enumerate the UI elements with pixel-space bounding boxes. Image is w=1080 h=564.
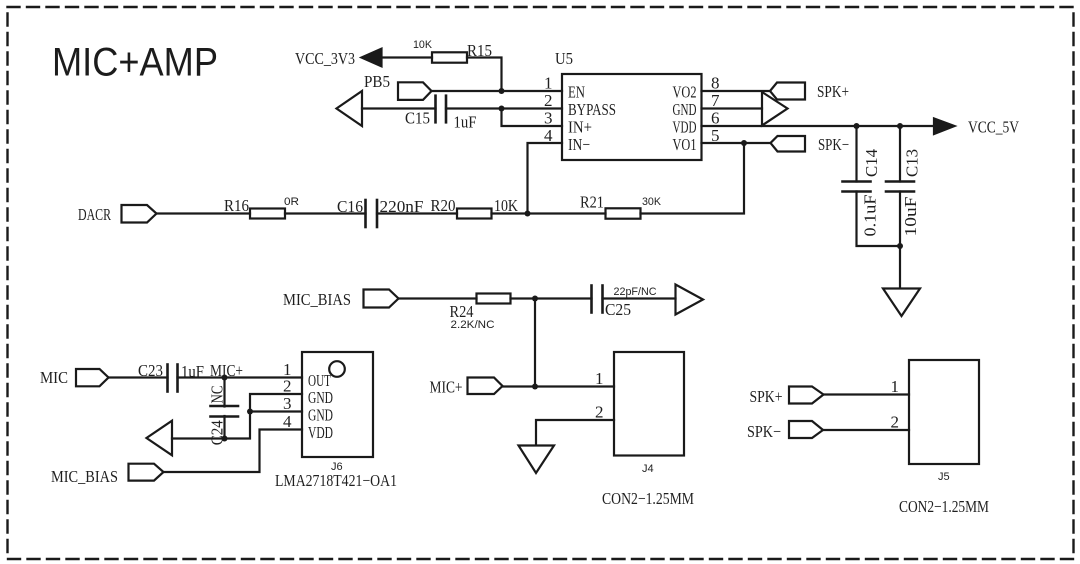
svg-text:2: 2 [595, 403, 604, 422]
svg-text:SPK+: SPK+ [750, 387, 783, 406]
svg-text:EN: EN [568, 83, 585, 102]
pin number 1 J4 [595, 369, 604, 388]
svg-text:MIC+: MIC+ [430, 378, 463, 397]
label 0.1uF rotated [861, 195, 880, 237]
svg-text:VDD: VDD [673, 118, 697, 137]
label 2.2K/NC [451, 319, 495, 331]
svg-text:C24: C24 [208, 420, 227, 445]
capacitor C13 [886, 182, 914, 192]
svg-text:GND: GND [673, 100, 697, 119]
svg-text:1: 1 [595, 369, 604, 388]
label MIC_BIAS mid [283, 290, 351, 309]
svg-text:220nF: 220nF [380, 197, 424, 216]
label 1uF of C15 [454, 113, 477, 132]
svg-text:MIC_BIAS: MIC_BIAS [283, 290, 351, 309]
junction dot C14 top [854, 123, 860, 129]
pin number 3 J6 [283, 394, 292, 413]
svg-text:IN−: IN− [568, 135, 590, 154]
junction dot VO1 node [741, 140, 747, 146]
svg-text:8: 8 [711, 74, 720, 93]
svg-text:10uF: 10uF [901, 197, 920, 237]
pin label OUT J6 [308, 371, 331, 390]
svg-text:MIC: MIC [40, 368, 68, 387]
net port SPK- flag top [771, 136, 806, 152]
net port PB5 flag [398, 82, 432, 100]
wire PB5 to EN [432, 90, 563, 92]
junction dot MIC+ node [222, 375, 228, 381]
svg-text:C13: C13 [903, 149, 922, 177]
svg-text:VCC_3V3: VCC_3V3 [295, 49, 355, 68]
junction dot pin2-3 [247, 409, 253, 415]
net port DACR flag [122, 205, 157, 223]
title MIC+AMP [52, 41, 218, 85]
wire node to R21 [528, 212, 606, 214]
label 10K of R15 [413, 39, 433, 51]
pin label BYPASS [568, 100, 616, 119]
ground symbol below J4 [519, 446, 555, 474]
svg-text:30K: 30K [642, 196, 662, 208]
ground symbol right of pin7 [762, 92, 788, 126]
svg-text:C23: C23 [138, 361, 163, 380]
svg-text:VCC_5V: VCC_5V [968, 118, 1020, 137]
pin label GND U5 [673, 100, 697, 119]
svg-text:C16: C16 [337, 197, 363, 216]
junction dot R24 node [532, 296, 538, 302]
svg-text:10K: 10K [413, 39, 433, 51]
svg-text:1uF: 1uF [181, 362, 204, 381]
wire node to C25 [535, 297, 592, 299]
ground symbol at C15 [337, 91, 363, 126]
ground symbol right of C25 [676, 285, 704, 315]
resistor R15 [432, 52, 467, 62]
wire pin5 VO1 to SPK- [702, 142, 771, 144]
wire node down to MIC+ [534, 299, 536, 387]
wire pin4 IN- down to R20 node [528, 143, 563, 214]
pin number 1 J5 [891, 377, 900, 396]
label MIC [40, 368, 68, 387]
svg-text:VO1: VO1 [673, 135, 697, 154]
ground symbol below C13 [883, 289, 920, 317]
svg-text:2: 2 [544, 91, 553, 110]
wire C15 to BYPASS node [446, 107, 502, 109]
svg-text:PB5: PB5 [364, 72, 390, 91]
pin1 mark circle J6 [329, 361, 345, 377]
connector J4 body [614, 352, 684, 456]
svg-text:1uF: 1uF [454, 113, 477, 132]
label U5 [555, 49, 573, 68]
label 220nF [380, 197, 424, 216]
svg-text:IN+: IN+ [568, 118, 592, 137]
pin number 5 U5 [711, 126, 720, 145]
pin number 6 U5 [711, 109, 720, 128]
label CON2-1.25MM J4 [602, 489, 694, 508]
svg-text:6: 6 [711, 109, 720, 128]
wire SPK- to J5 pin2 [823, 429, 909, 431]
label 1uF of C23 [181, 362, 204, 381]
svg-text:4: 4 [544, 126, 553, 145]
svg-text:1: 1 [544, 74, 553, 93]
svg-text:GND: GND [308, 388, 333, 407]
pin number 2 J6 [283, 377, 292, 396]
capacitor C16 [366, 200, 378, 227]
junction dot C13 bottom [897, 243, 903, 249]
svg-text:SPK−: SPK− [747, 422, 781, 441]
pin label GND3 J6 [308, 406, 333, 425]
wire R20 to node [492, 212, 528, 214]
wire VCC_3V3 to R15 [381, 56, 432, 58]
net port SPK+ flag top [770, 83, 805, 100]
pin label GND2 J6 [308, 388, 333, 407]
svg-text:MIC+AMP: MIC+AMP [52, 41, 218, 85]
svg-text:3: 3 [283, 394, 292, 413]
wire R21 up to VO1 [641, 143, 745, 214]
wire node to pin3 IN+ [502, 109, 563, 127]
label C24 rotated [208, 420, 227, 445]
pin number 1 U5 [544, 74, 553, 93]
resistor R21 [606, 208, 641, 218]
wire J6 pin4 to MIC_BIAS [164, 430, 303, 473]
label R21 [580, 193, 604, 212]
svg-text:VDD: VDD [308, 423, 333, 442]
svg-text:C14: C14 [862, 149, 881, 177]
label 10K of R20 [494, 196, 519, 215]
label C14 rotated [862, 149, 881, 177]
pin label IN+ [568, 118, 592, 137]
label 30K of R21 [642, 196, 662, 208]
label SPK+ top [817, 82, 849, 101]
wire DACR to R16 [157, 212, 251, 214]
wire C14 top [855, 126, 857, 182]
junction dot C24 bottom [222, 436, 228, 442]
pin label VDD U5 [673, 118, 697, 137]
svg-text:4: 4 [283, 412, 292, 431]
svg-text:DACR: DACR [78, 205, 111, 224]
svg-text:R21: R21 [580, 193, 604, 212]
label C13 rotated [903, 149, 922, 177]
label VCC_3V3 [295, 49, 355, 68]
svg-text:GND: GND [308, 406, 333, 425]
wire pin7 GND to ground [702, 107, 763, 109]
wire node to pin2 BYPASS [502, 107, 563, 109]
label R16 [224, 196, 249, 215]
label MIC+ node [210, 361, 243, 380]
junction dot EN node [499, 88, 505, 94]
net port MIC flag [76, 369, 109, 386]
label SPK- at J5 [747, 422, 781, 441]
svg-text:MIC+: MIC+ [210, 361, 243, 380]
label 10uF rotated [901, 197, 920, 237]
label 0R of R16 [284, 196, 299, 208]
pin number 1 J6 [283, 360, 292, 379]
ground symbol left of C24 [147, 421, 173, 456]
svg-text:5: 5 [711, 126, 720, 145]
connector J5 body [909, 360, 979, 464]
wire MIC to C23 [109, 376, 168, 378]
label PB5 [364, 72, 390, 91]
junction dot J4 pin1 [532, 384, 538, 390]
label J5 [938, 471, 950, 483]
svg-text:CON2−1.25MM: CON2−1.25MM [602, 489, 694, 508]
wire J4 pin2 to ground [536, 420, 614, 445]
wire pin8 VO2 to SPK+ [702, 90, 771, 92]
svg-text:R20: R20 [431, 196, 456, 215]
label C16 [337, 197, 363, 216]
svg-text:J4: J4 [642, 463, 654, 475]
label C23 [138, 361, 163, 380]
wire MIC_BIAS to R24 [399, 297, 477, 299]
wire pin6 VDD to VCC_5V [702, 125, 935, 127]
junction dot IN- node [525, 211, 531, 217]
wire J6 pin3 [250, 410, 302, 412]
wire ground to C15 [362, 107, 436, 109]
op-amp U5 body [562, 74, 702, 160]
wire MIC+ to J4 pin1 [503, 385, 615, 387]
pin number 2 J4 [595, 403, 604, 422]
svg-text:2: 2 [891, 413, 900, 432]
svg-text:C15: C15 [405, 109, 430, 128]
pin number 2 J5 [891, 413, 900, 432]
pin label IN- [568, 135, 590, 154]
svg-text:R15: R15 [467, 41, 492, 60]
label MIC_BIAS bottom [51, 467, 118, 486]
capacitor C15 [436, 96, 447, 123]
svg-text:10K: 10K [494, 196, 519, 215]
pin number 2 U5 [544, 91, 553, 110]
label R24 [450, 302, 474, 321]
label SPK- top [818, 135, 849, 154]
junction dot BYPASS node [499, 106, 505, 112]
resistor R24 [477, 294, 511, 304]
wire gnd run J6 [172, 412, 250, 439]
svg-text:MIC_BIAS: MIC_BIAS [51, 467, 118, 486]
wire SPK+ to J5 pin1 [824, 393, 910, 395]
svg-text:SPK−: SPK− [818, 135, 849, 154]
wire MIC+ node down to C24 [223, 378, 225, 407]
junction dot C13 top [897, 123, 903, 129]
pin label VO1 [673, 135, 697, 154]
wire C25 to ground [603, 297, 676, 299]
wire C24 bottom [223, 416, 225, 439]
svg-text:SPK+: SPK+ [817, 82, 849, 101]
svg-text:LMA2718T421−OA1: LMA2718T421−OA1 [275, 471, 397, 490]
label DACR [78, 205, 111, 224]
label SPK+ at J5 [750, 387, 783, 406]
pin number 8 U5 [711, 74, 720, 93]
wire C16 to R20 [377, 212, 457, 214]
label NC rotated [208, 386, 227, 404]
svg-text:BYPASS: BYPASS [568, 100, 616, 119]
wire C23 to J6 pin1 [178, 376, 303, 378]
net port MIC+ flag at J4 [468, 378, 503, 395]
svg-text:C25: C25 [605, 300, 631, 319]
pin number 7 U5 [711, 91, 720, 110]
label C15 [405, 109, 430, 128]
capacitor C23 [168, 365, 178, 392]
svg-text:J5: J5 [938, 471, 950, 483]
label J4 [642, 463, 654, 475]
net port MIC_BIAS flag bottom [129, 464, 164, 481]
wire R16 to C16 [285, 212, 366, 214]
label LMA2718T421-OA1 [275, 471, 397, 490]
wire C14 bottom [857, 192, 901, 247]
connector J6 body [302, 352, 373, 457]
svg-text:R16: R16 [224, 196, 249, 215]
capacitor C14 [843, 182, 871, 192]
svg-text:7: 7 [711, 91, 720, 110]
wire R15 to EN node [467, 58, 502, 92]
svg-text:3: 3 [544, 109, 553, 128]
resistor R20 [457, 209, 492, 219]
svg-text:1: 1 [891, 377, 900, 396]
pin number 3 U5 [544, 109, 553, 128]
label R15 [467, 41, 492, 60]
capacitor C24 [211, 406, 239, 417]
svg-text:CON2−1.25MM: CON2−1.25MM [899, 497, 989, 516]
resistor R16 [250, 209, 285, 219]
wire R24 to node [511, 297, 536, 299]
label VCC_5V [968, 118, 1020, 137]
label MIC+ at J4 [430, 378, 463, 397]
label 22pF/NC [614, 286, 657, 298]
wire C13 bottom to ground [899, 192, 901, 289]
pin number 4 J6 [283, 412, 292, 431]
label C25 [605, 300, 631, 319]
svg-text:0R: 0R [284, 196, 299, 208]
wire C13 top [899, 126, 901, 182]
net port SPK+ flag at J5 [789, 387, 824, 404]
svg-text:U5: U5 [555, 49, 573, 68]
pin label VDD J6 [308, 423, 333, 442]
label R20 [431, 196, 456, 215]
svg-text:VO2: VO2 [673, 83, 697, 102]
svg-text:2: 2 [283, 377, 292, 396]
capacitor C25 [592, 286, 603, 313]
label CON2-1.25MM J5 [899, 497, 989, 516]
svg-text:2.2K/NC: 2.2K/NC [451, 319, 495, 331]
net port SPK- flag at J5 [789, 421, 823, 438]
power flag VCC_3V3 arrow [362, 49, 382, 67]
pin label VO2 [673, 83, 697, 102]
label J6 [331, 461, 343, 473]
svg-text:NC: NC [208, 386, 227, 404]
net port MIC_BIAS flag mid [364, 290, 399, 308]
svg-text:0.1uF: 0.1uF [861, 195, 880, 237]
pin label EN [568, 83, 585, 102]
pin number 4 U5 [544, 126, 553, 145]
svg-text:22pF/NC: 22pF/NC [614, 286, 657, 298]
power flag VCC_5V arrow [934, 119, 955, 135]
wire J6 pin2 [250, 394, 302, 412]
